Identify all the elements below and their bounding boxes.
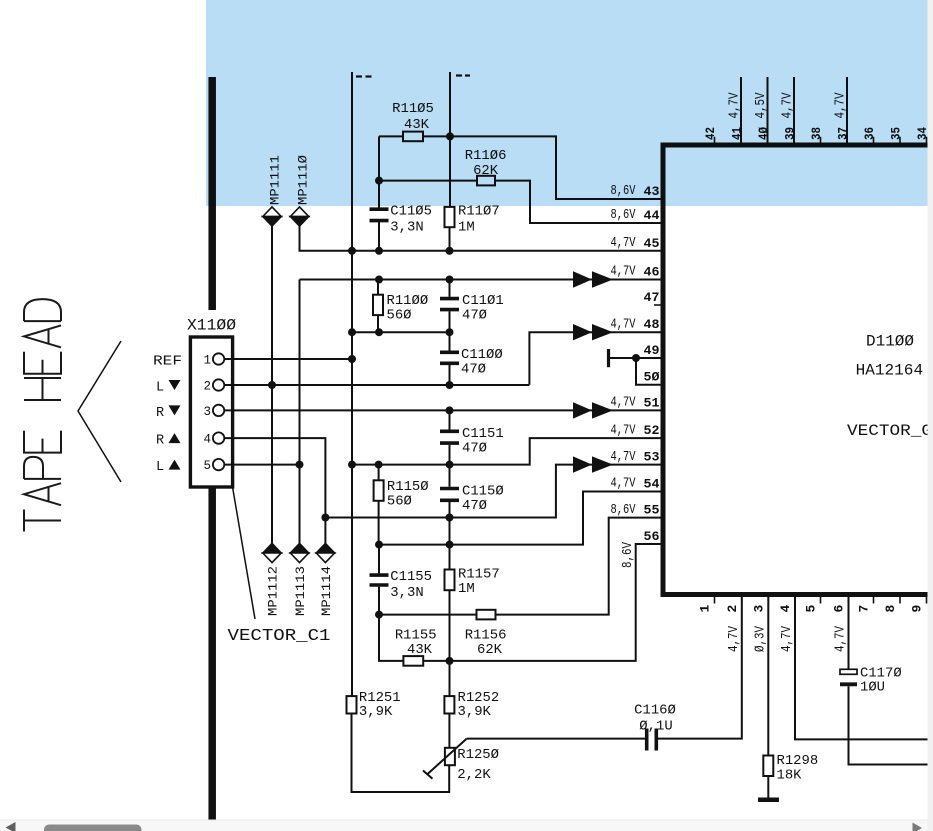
wire to R1107 top: [449, 136, 451, 207]
svg-text:4,7V: 4,7V: [611, 317, 636, 332]
svg-text:45: 45: [644, 236, 660, 251]
junction C1150 bottom: [446, 514, 454, 522]
svg-text:R: R: [156, 406, 164, 421]
svg-text:C116Ø: C116Ø: [634, 703, 676, 719]
triangle R down: [169, 405, 181, 415]
pin 4 tick (bottom): [794, 597, 796, 604]
svg-text:43K: 43K: [407, 642, 433, 658]
wire L-down to pin 48: [529, 332, 660, 385]
svg-text:4,7V: 4,7V: [780, 626, 795, 652]
pin 9 tick (bottom): [926, 597, 928, 604]
svg-text:56Ø: 56Ø: [387, 494, 412, 510]
wire C1105 bottom: [378, 222, 380, 251]
svg-text:49: 49: [644, 343, 660, 358]
svg-text:3: 3: [203, 405, 211, 419]
junction C1101 top: [446, 276, 454, 284]
svg-text:44: 44: [644, 208, 660, 223]
svg-text:MP1112: MP1112: [266, 566, 281, 616]
svg-text:47Ø: 47Ø: [462, 308, 487, 324]
wire to R1252 top: [449, 661, 451, 696]
svg-text:55: 55: [644, 503, 660, 518]
wire from pin 40 up: [767, 77, 769, 143]
wire C1151 top stub: [449, 410, 451, 429]
resistor R1100: [373, 295, 383, 315]
svg-text:4,7V: 4,7V: [611, 450, 636, 465]
wire pin 49: [610, 357, 661, 359]
resistor R1107: [445, 207, 455, 227]
wire C1160 to pin 2: [658, 597, 742, 739]
svg-text:47Ø: 47Ø: [462, 441, 487, 457]
svg-text:VECTOR_G: VECTOR_G: [847, 422, 932, 440]
junction R1150 top: [375, 461, 383, 469]
wire W55a to pin 53: [325, 465, 660, 518]
wire pin 6 to C1170: [848, 597, 850, 669]
horizontal scrollbar right arrow: [913, 823, 923, 831]
potentiometer R1250 wiper arrow: [427, 739, 467, 775]
wire MP1111 to MP1112 vertical: [271, 226, 273, 543]
junction R1106 left: [375, 177, 383, 185]
svg-text:53: 53: [644, 450, 660, 465]
pin 47 stub: [654, 304, 661, 306]
wire REF row to pin 52: [352, 438, 661, 465]
amplifier arrows pin 53: [573, 456, 613, 472]
pin 40 tick (top): [767, 137, 769, 143]
triangle L down: [169, 380, 181, 390]
wire wiper row to C1160: [467, 738, 645, 740]
junction C1105/pin45: [375, 247, 383, 255]
svg-text:4: 4: [778, 605, 793, 613]
resistor R1105: [403, 132, 423, 142]
svg-text:6: 6: [832, 605, 847, 613]
resistor R1106: [477, 176, 495, 186]
wire from pin 41 up: [740, 77, 742, 143]
wire from pin 39 up: [793, 77, 795, 143]
junction R1100 bottom: [375, 328, 383, 336]
wire R1252 to R1250: [448, 714, 450, 748]
wire connector pin2 row: [224, 384, 529, 386]
svg-text:X11ØØ: X11ØØ: [187, 317, 236, 335]
svg-text:9: 9: [910, 605, 925, 613]
junction REF row48: [348, 328, 356, 336]
svg-text:D11ØØ: D11ØØ: [866, 333, 914, 351]
test point MP1111: [263, 207, 281, 226]
label TAPE HEAD: [24, 299, 61, 531]
svg-text:47: 47: [644, 290, 660, 305]
svg-text:46: 46: [644, 265, 660, 280]
pin 36 tick (top): [873, 137, 875, 143]
wire REF to C1100 top row: [352, 331, 450, 333]
connector pin 1 circle: [213, 353, 224, 364]
svg-text:4,7V: 4,7V: [611, 396, 636, 411]
wire C1150 bottom to R1157: [449, 518, 451, 570]
wire to pin 50: [636, 358, 661, 385]
svg-text:52: 52: [644, 423, 660, 438]
wire R1298 to ground: [767, 776, 769, 798]
svg-text:8: 8: [883, 605, 898, 613]
wire pin 4 to right edge: [795, 597, 928, 739]
pin 37 tick (top): [846, 137, 848, 143]
svg-text:L: L: [156, 460, 164, 475]
cut text stub a2: [366, 75, 372, 77]
junction R1150/C1155: [375, 541, 383, 549]
svg-text:MP1113: MP1113: [293, 566, 308, 616]
wire R1105 to pin 43: [423, 136, 661, 199]
svg-text:4: 4: [203, 433, 211, 447]
junction C1101/C1100: [446, 328, 454, 336]
svg-text:56: 56: [644, 529, 660, 544]
resistor R1251: [347, 696, 357, 713]
svg-text:REF: REF: [153, 355, 182, 370]
vertical scrollbar track: [928, 0, 933, 831]
pin 1 tick (bottom): [714, 597, 716, 604]
wire R1150 bottom stub: [378, 501, 380, 545]
amplifier arrows pin 51: [573, 402, 613, 418]
cut text stub a1: [356, 75, 362, 77]
wire R1107 bottom: [449, 227, 451, 251]
potentiometer R1250 wiper tail: [423, 771, 433, 779]
pin 8 tick (bottom): [899, 597, 901, 604]
triangle L up: [169, 460, 181, 470]
pin 42 tick (top): [714, 137, 716, 143]
junction C1100 bottom: [446, 381, 454, 389]
wire pin 46 row: [300, 279, 661, 281]
svg-text:56Ø: 56Ø: [387, 308, 412, 324]
svg-text:8,6V: 8,6V: [611, 208, 636, 223]
svg-text:4,7V: 4,7V: [834, 626, 849, 652]
capacitor C1150: [440, 489, 459, 501]
junction C1155 bottom: [375, 611, 383, 619]
svg-text:5: 5: [203, 459, 211, 473]
triangle R up: [169, 433, 181, 443]
svg-text:62K: 62K: [477, 642, 503, 658]
wire pin 3 to R1298: [767, 597, 769, 756]
svg-text:4,7V: 4,7V: [611, 265, 636, 280]
capacitor C1155: [370, 575, 389, 585]
wire pin46 left vertical to MP1113: [299, 280, 301, 544]
junction R1100 top: [375, 276, 383, 284]
junction pin5 net: [296, 461, 304, 469]
svg-text:1M: 1M: [458, 581, 475, 597]
connector pin 4 circle: [213, 432, 224, 443]
op-amp IC D1100 HA12164 outline: [663, 145, 928, 595]
wire R1157 bottom long: [449, 590, 451, 661]
pin 34 tick (top): [926, 137, 928, 143]
wire C1155 bottom stub: [378, 587, 380, 615]
horizontal scrollbar left arrow: [6, 822, 16, 831]
junction C1151/C1150: [446, 461, 454, 469]
wire row55 left: [379, 614, 477, 616]
svg-text:R125Ø: R125Ø: [457, 747, 499, 763]
wire C1150 top stub: [449, 465, 451, 487]
svg-text:48: 48: [644, 317, 660, 332]
svg-text:51: 51: [644, 395, 660, 410]
wire C1100 top stub: [449, 332, 451, 350]
svg-text:3,3N: 3,3N: [390, 585, 423, 601]
svg-text:HA12164: HA12164: [856, 362, 924, 380]
svg-text:2,2K: 2,2K: [457, 767, 491, 783]
junction R1155 row: [446, 657, 454, 665]
pin 49 termination bar: [607, 349, 610, 367]
svg-text:8,6V: 8,6V: [621, 542, 636, 568]
test point MP1112: [263, 543, 281, 562]
svg-text:8,6V: 8,6V: [611, 503, 636, 518]
svg-text:L: L: [156, 381, 164, 396]
wire C1100 bottom stub: [449, 365, 451, 385]
svg-text:Ø,3V: Ø,3V: [753, 626, 768, 652]
pin 38 tick (top): [820, 137, 822, 143]
leader line to VECTOR_C1: [233, 488, 255, 620]
connector pin 2 circle: [213, 379, 224, 390]
svg-text:4,7V: 4,7V: [611, 423, 636, 438]
svg-text:3,3N: 3,3N: [390, 220, 423, 236]
junction R1157 top row54: [446, 541, 454, 549]
junction MP1114 row53: [321, 514, 329, 522]
resistor R1252: [444, 696, 454, 713]
svg-text:7: 7: [857, 605, 872, 613]
wire C1101 bottom stub: [449, 311, 451, 332]
test point MP1110: [290, 207, 308, 226]
wire C1101 top stub: [449, 280, 451, 297]
resistor R1155: [403, 656, 423, 666]
pin 2 tick (bottom): [741, 597, 743, 604]
cut text stub b1: [456, 74, 462, 76]
connector pin 3 circle: [213, 405, 224, 416]
pin 6 tick (bottom): [848, 597, 850, 604]
svg-text:47Ø: 47Ø: [461, 362, 486, 378]
wire C1170 to right edge: [849, 686, 929, 764]
svg-text:1: 1: [203, 354, 211, 368]
wire C1150 bottom stub: [449, 502, 451, 518]
test point MP1113: [290, 543, 308, 562]
svg-text:5: 5: [804, 605, 819, 613]
svg-text:18K: 18K: [777, 768, 803, 784]
junction pin49/pin50: [632, 354, 640, 362]
resistor R1156: [477, 610, 496, 620]
junction C1151 top: [446, 406, 454, 414]
svg-text:VECTOR_C1: VECTOR_C1: [228, 627, 331, 646]
svg-text:3,9K: 3,9K: [359, 704, 393, 720]
pin 5 tick (bottom): [820, 597, 822, 604]
wire R1150 top stub: [378, 465, 380, 481]
junction REF/pin45: [348, 247, 356, 255]
capacitor C1160: [647, 729, 657, 751]
pin 39 tick (top): [793, 137, 795, 143]
wire R1251 to R1250 bottom loop: [352, 714, 450, 793]
junction L-down net at MP1111 stem: [268, 381, 276, 389]
wire row to pin 54: [379, 492, 661, 545]
wire MP1110 to pin 45 row: [300, 226, 661, 251]
resistor R1298: [763, 756, 773, 777]
connector pin 5 circle: [213, 459, 224, 470]
wire: thick head screening bus (upper): [208, 77, 216, 310]
wire REF long vertical: [351, 251, 353, 696]
junction R1107/pin45: [446, 247, 454, 255]
wire top vertical to R1107: [449, 72, 451, 136]
wire R1106 left: [379, 180, 477, 182]
amplifier arrows pin 48: [573, 324, 613, 340]
cut text stub b2: [465, 74, 470, 76]
svg-text:2: 2: [725, 605, 740, 613]
wire connector pin4 to MP1114: [224, 438, 325, 543]
wire down to R1155: [379, 615, 403, 661]
capacitor C1101: [440, 299, 459, 310]
pin 3 tick (bottom): [767, 597, 769, 604]
ground: [758, 797, 779, 802]
amplifier arrows pin 46: [573, 271, 613, 287]
wire REF vertical upper: [351, 72, 353, 251]
wire R1106 to pin 44: [495, 181, 661, 223]
junction REF: [348, 355, 356, 363]
horizontal scrollbar thumb: [44, 825, 142, 831]
svg-text:4,7V: 4,7V: [727, 626, 742, 652]
svg-text:47Ø: 47Ø: [462, 498, 487, 514]
svg-text:54: 54: [644, 477, 660, 492]
svg-text:1ØU: 1ØU: [860, 680, 885, 696]
svg-text:1M: 1M: [458, 220, 475, 236]
wire to R1105 left: [379, 135, 403, 137]
capacitor C1100: [440, 352, 459, 363]
junction R1105/R1107/pin43: [446, 132, 454, 140]
connector X1100 box: [190, 337, 232, 487]
horizontal scrollbar track: [0, 820, 933, 831]
wire R1100 top stub: [377, 280, 379, 295]
svg-text:C1155: C1155: [390, 569, 432, 585]
wire C1155 top stub: [378, 545, 380, 574]
svg-text:4,7V: 4,7V: [611, 477, 636, 492]
svg-text:Ø,1U: Ø,1U: [639, 719, 672, 735]
capacitor C1151: [440, 431, 459, 443]
resistor R1150: [374, 480, 384, 501]
test point MP1114: [316, 543, 334, 562]
wire from pin 37 up: [846, 77, 848, 143]
wire R1155 to pin 56: [423, 544, 660, 661]
potentiometer R1250 body: [445, 748, 455, 765]
wire REF to vertical: [224, 358, 352, 360]
wire R1156 to pin 55: [496, 518, 661, 615]
svg-text:MP1114: MP1114: [319, 566, 334, 616]
wire C1151 bottom stub: [449, 445, 451, 465]
capacitor C1170 (electrolytic): [840, 669, 857, 684]
svg-text:2: 2: [203, 380, 211, 394]
svg-text:4,7V: 4,7V: [611, 236, 636, 251]
highlight selection overlay: [206, 0, 928, 206]
wire R1105/R1106 left vertical: [378, 136, 380, 207]
svg-text:5Ø: 5Ø: [644, 370, 660, 385]
svg-text:3: 3: [751, 605, 766, 613]
pin 35 tick (top): [899, 137, 901, 143]
wire: thick head screening bus (lower): [208, 487, 216, 821]
pin 41 tick (top): [740, 137, 742, 143]
resistor R1157: [445, 570, 455, 591]
wire connector pin5: [224, 464, 299, 466]
capacitor C1105: [370, 209, 389, 220]
wire R1100 bottom stub: [377, 315, 379, 332]
svg-text:1: 1: [698, 605, 713, 613]
pin 7 tick (bottom): [873, 597, 875, 604]
junction REF row52: [348, 461, 356, 469]
svg-text:R: R: [156, 434, 164, 449]
wire connector pin3 to pin 51: [224, 409, 660, 411]
svg-text:3,9K: 3,9K: [458, 704, 492, 720]
brace for tape head: [78, 341, 121, 482]
